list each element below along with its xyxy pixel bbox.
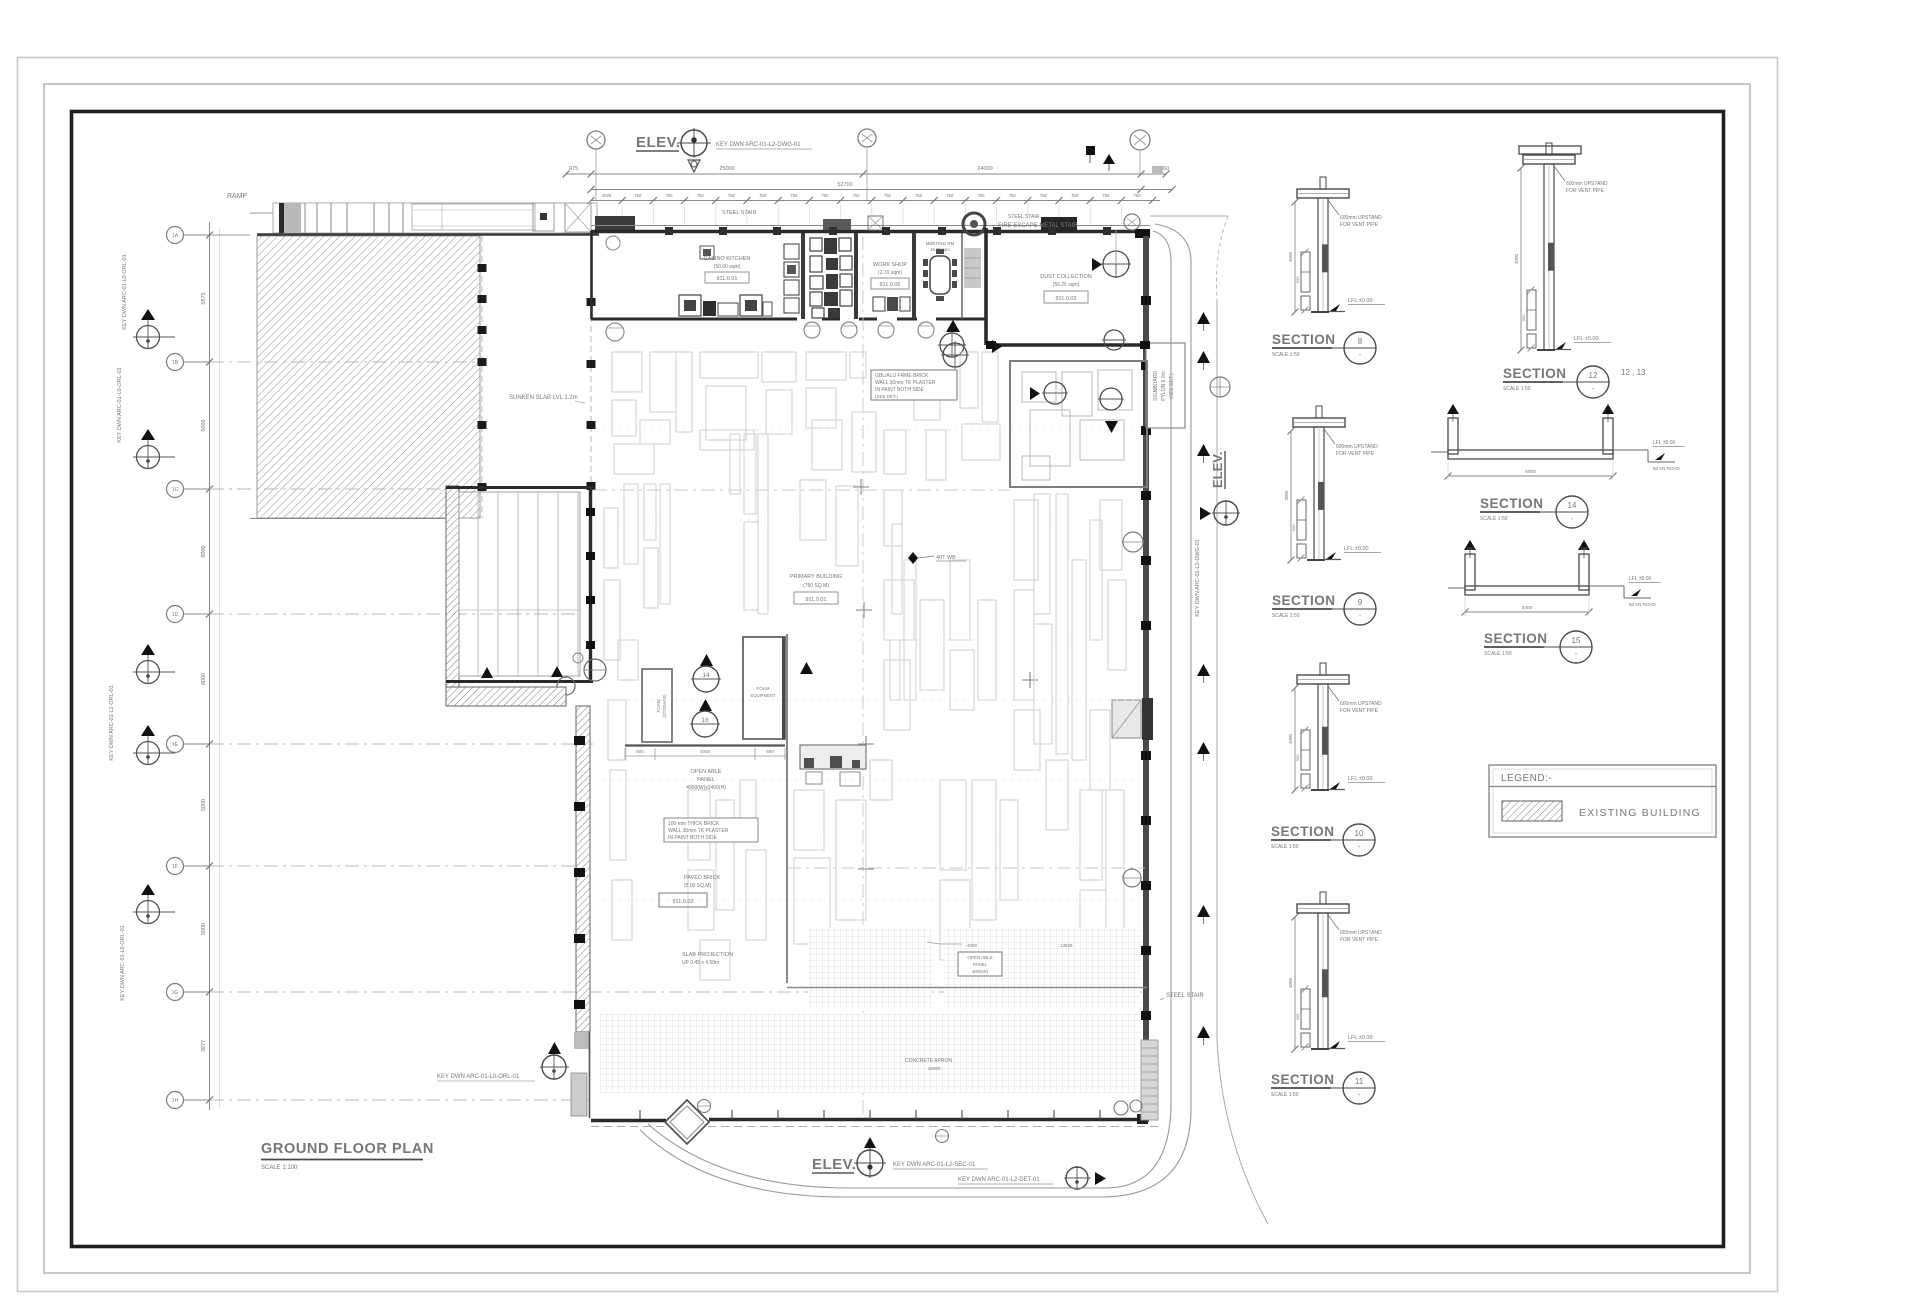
svg-text:SECTION: SECTION	[1503, 366, 1567, 381]
svg-text:1C: 1C	[172, 487, 179, 493]
svg-text:FOR VENT PIPE: FOR VENT PIPE	[1340, 222, 1379, 228]
grid bubble 1H	[167, 1092, 591, 1109]
brick wall spec box lower	[664, 818, 758, 842]
svg-text:(5.00 SQ.M): (5.00 SQ.M)	[684, 883, 712, 889]
svg-text:15: 15	[1572, 636, 1581, 645]
svg-text:750: 750	[946, 193, 954, 198]
small circle below corner	[606, 236, 620, 250]
grid bubble 1B	[167, 354, 481, 371]
section label 11	[1271, 1072, 1375, 1104]
SUNKEN SLAB label	[509, 395, 585, 403]
svg-text:LFL ±0.00: LFL ±0.00	[1348, 298, 1373, 304]
ELEV title bottom	[812, 1156, 856, 1173]
svg-text:SLAB PROJECTION: SLAB PROJECTION	[682, 952, 733, 958]
grid bubble 1F	[167, 858, 579, 875]
top wall dark blocks	[823, 216, 1150, 238]
svg-text:LFL ±0.00: LFL ±0.00	[1653, 440, 1676, 446]
svg-text:40T WB: 40T WB	[936, 555, 956, 561]
svg-text:SIGNBOARD: SIGNBOARD	[1153, 371, 1159, 401]
dust subroom walls	[1010, 361, 1147, 487]
svg-text:LFL ±0.00: LFL ±0.00	[1348, 1035, 1373, 1041]
svg-text:1A: 1A	[172, 233, 179, 239]
svg-text:GBL/ALU FRME BRICK: GBL/ALU FRME BRICK	[875, 373, 929, 379]
ELEV title top	[636, 134, 680, 151]
PRIMARY BUILDING label	[790, 574, 842, 604]
flag in dust room	[1092, 230, 1131, 278]
ELEV vertical right	[1200, 451, 1240, 526]
faint machinery right runs	[1034, 494, 1102, 760]
WORK SHOP labels	[871, 262, 909, 289]
FIRE ESCAPE METAL STAIR text	[998, 223, 1078, 229]
svg-text:3000: 3000	[1288, 733, 1293, 744]
svg-text:SCALE 1:50: SCALE 1:50	[1272, 352, 1300, 358]
ELEV reference text top	[716, 142, 812, 149]
svg-text:9: 9	[1358, 598, 1363, 607]
grid circle top right on wall	[1124, 214, 1140, 230]
kitchen right strip equipment	[784, 244, 799, 313]
40T WB marker	[908, 552, 966, 564]
faint machinery extra right mid	[1014, 500, 1126, 830]
STEEL STAIR bottom label	[1160, 993, 1204, 1000]
section detail 10	[1288, 663, 1385, 794]
svg-text:911.0.02: 911.0.02	[672, 899, 693, 905]
svg-text:911.0.03: 911.0.03	[1055, 296, 1076, 302]
rotated key text left 1	[117, 367, 123, 442]
inner room top wall	[446, 486, 593, 489]
svg-text:LEGEND:-: LEGEND:-	[1501, 773, 1552, 784]
inner room hatched left wall	[446, 486, 459, 687]
svg-text:FOAM: FOAM	[656, 699, 661, 712]
svg-text:750: 750	[1134, 193, 1142, 198]
svg-text:900: 900	[1521, 314, 1526, 321]
grid bubble 1C	[167, 481, 447, 498]
svg-text:FOAM: FOAM	[757, 686, 770, 691]
ELEV reference text bottom	[893, 1162, 988, 1169]
bottom flag circle left	[540, 1042, 569, 1080]
paved brick label	[659, 875, 720, 907]
svg-text:DUST COLLECTION: DUST COLLECTION	[1040, 274, 1092, 280]
grid bubble 1A	[167, 227, 251, 244]
grid crosses	[853, 479, 1038, 1000]
wall dark block top-left corner	[595, 216, 635, 233]
svg-text:1F: 1F	[172, 864, 178, 870]
svg-text:750: 750	[978, 193, 986, 198]
rotated key text right	[1195, 539, 1201, 617]
CASINO KITCHEN labels	[704, 256, 751, 283]
svg-text:1D: 1D	[172, 612, 179, 618]
dimension line total 52700	[588, 182, 1176, 193]
faint machinery lower-left	[794, 760, 892, 980]
section detail 15	[1448, 540, 1661, 616]
svg-text:4000(W)x2400(H): 4000(W)x2400(H)	[686, 785, 726, 791]
svg-text:SECTION: SECTION	[1271, 1072, 1335, 1087]
dimension line overall top	[563, 166, 1170, 178]
svg-text:FOR VENT PIPE: FOR VENT PIPE	[1340, 937, 1379, 943]
section cut flag left 2	[133, 429, 175, 469]
flags along road	[1197, 312, 1210, 1045]
column line with blocks x480	[478, 236, 487, 518]
svg-text:600mm UPSTAND: 600mm UPSTAND	[1336, 444, 1378, 450]
svg-text:ELEV.: ELEV.	[812, 1156, 856, 1173]
flag 1111 399	[1098, 388, 1124, 433]
rooms bottom wall	[591, 318, 985, 321]
svg-text:SECTION: SECTION	[1271, 824, 1335, 839]
column line with blocks x591 upper	[587, 236, 596, 490]
lone triangle near foam room	[800, 662, 813, 674]
svg-text:975: 975	[569, 166, 578, 172]
section label 10	[1271, 824, 1375, 856]
svg-text:11: 11	[1355, 1077, 1364, 1086]
svg-text:4000: 4000	[700, 749, 711, 754]
svg-text:SECTION: SECTION	[1480, 496, 1544, 511]
bottom key text left	[437, 1074, 535, 1081]
section label 8	[1272, 332, 1376, 364]
svg-text:750: 750	[853, 193, 861, 198]
svg-text:100 mm THICK BRICK: 100 mm THICK BRICK	[668, 821, 720, 827]
svg-text:13625: 13625	[1060, 943, 1073, 948]
svg-text:1B: 1B	[172, 360, 179, 366]
svg-text:750: 750	[1009, 193, 1017, 198]
GROUND FLOOR PLAN title	[261, 1141, 434, 1171]
svg-text:WORK SHOP: WORK SHOP	[873, 262, 908, 268]
svg-text:4000: 4000	[602, 193, 612, 198]
svg-text:GROUND FLOOR PLAN: GROUND FLOOR PLAN	[261, 1141, 434, 1157]
faint machinery center tall	[890, 524, 916, 700]
svg-text:3000: 3000	[1284, 490, 1289, 501]
small box right of top dim	[1152, 166, 1163, 174]
svg-text:PYLON 6.0m: PYLON 6.0m	[1161, 371, 1167, 400]
legend swatch existing building	[1502, 801, 1701, 821]
svg-text:750: 750	[1071, 193, 1079, 198]
faint machinery lower-right	[1080, 790, 1124, 960]
section label 14	[1480, 496, 1588, 528]
svg-text:ELEV.: ELEV.	[636, 134, 680, 151]
svg-text:8: 8	[1358, 337, 1363, 346]
svg-text:OPEN ABLE: OPEN ABLE	[967, 955, 992, 960]
svg-text:600mm UPSTAND: 600mm UPSTAND	[1340, 701, 1382, 707]
svg-text:900: 900	[1295, 1013, 1300, 1020]
hall horizontal dashed y490	[593, 489, 1010, 491]
section label 9	[1272, 593, 1376, 625]
svg-text:(750 SQ.M): (750 SQ.M)	[803, 583, 829, 589]
faint machinery mid run	[730, 434, 768, 614]
section label 15	[1484, 631, 1592, 663]
svg-text:SCALE 1:50: SCALE 1:50	[1480, 516, 1508, 522]
inner partition wall x787	[787, 634, 1147, 988]
faint machinery extra center mid	[884, 560, 996, 730]
grid bubble top E3	[1130, 130, 1150, 174]
dust subroom machinery	[1022, 370, 1132, 480]
paved grid floor upper patches	[808, 928, 1140, 1008]
svg-text:150: 150	[1581, 546, 1589, 551]
open able panel text	[686, 769, 726, 791]
grid bubble 1G	[167, 984, 1146, 1001]
svg-text:18: 18	[701, 717, 709, 724]
inner room stair lines	[459, 492, 580, 676]
lower left wall door blocks	[571, 1032, 590, 1118]
svg-text:750: 750	[822, 193, 830, 198]
svg-text:8000: 8000	[1525, 469, 1536, 475]
wall spec box	[871, 370, 957, 400]
svg-text:SCALE 1:50: SCALE 1:50	[1484, 651, 1512, 657]
hall horizontal dashed y868	[787, 867, 1145, 869]
svg-text:50 KN ROAD: 50 KN ROAD	[1629, 602, 1657, 607]
kitchen equipment row	[679, 246, 772, 316]
DUST COLLECTION labels	[1040, 274, 1092, 303]
svg-text:5000: 5000	[201, 799, 207, 811]
svg-text:PANEL: PANEL	[973, 962, 988, 967]
svg-text:LFL ±0.00: LFL ±0.00	[1629, 576, 1652, 582]
svg-text:911.0.01: 911.0.01	[716, 276, 737, 282]
svg-text:SCALE 1:50: SCALE 1:50	[1271, 1092, 1299, 1098]
svg-text:900: 900	[1295, 276, 1300, 283]
grid bubble top E1	[587, 131, 605, 201]
MEETING RM labels	[926, 241, 955, 252]
section label 12-13	[1503, 366, 1646, 398]
svg-text:SUNKEN SLAB LVL 1.2m: SUNKEN SLAB LVL 1.2m	[509, 395, 578, 401]
inner room bottom wall	[446, 680, 593, 683]
svg-text:3000: 3000	[1288, 251, 1293, 262]
svg-text:KEY DWN ARC-01-L2-DWG-01: KEY DWN ARC-01-L2-DWG-01	[1195, 539, 1201, 617]
section detail 12-13	[1514, 143, 1611, 354]
svg-text:STEEL STAIR: STEEL STAIR	[722, 210, 757, 216]
rotated key text left 4	[120, 925, 126, 1000]
svg-text:STEEL STAIR: STEEL STAIR	[1008, 214, 1040, 220]
svg-text:4000: 4000	[967, 943, 978, 948]
svg-text:UP 0.45 x 4.50m: UP 0.45 x 4.50m	[682, 960, 719, 966]
svg-text:5875: 5875	[201, 292, 207, 304]
stair corridor strip	[964, 248, 981, 288]
svg-text:SCALE 1:100: SCALE 1:100	[261, 1165, 298, 1171]
hall vertical gridline	[862, 236, 864, 1118]
svg-text:FOR VENT PIPE: FOR VENT PIPE	[1566, 188, 1605, 194]
svg-text:FOR VENT PIPE: FOR VENT PIPE	[1336, 451, 1375, 457]
top wall column ticks	[665, 227, 1111, 235]
grid bubble 1E	[167, 736, 594, 753]
flag 955 355	[941, 340, 1002, 369]
svg-text:5000: 5000	[201, 923, 207, 935]
svg-text:SCALE 1:50: SCALE 1:50	[1271, 844, 1299, 850]
svg-text:12 , 13: 12 , 13	[1621, 368, 1646, 377]
second flag bottom	[958, 1166, 1106, 1190]
site line far right	[1150, 216, 1268, 1224]
section cut flag left 4	[133, 725, 175, 765]
workshop equipment	[873, 297, 910, 311]
hatched existing building area	[250, 236, 480, 519]
svg-text:(STORAGE): (STORAGE)	[662, 694, 667, 718]
section 15 flange top labels	[1467, 546, 1589, 551]
svg-text:600mm UPSTAND: 600mm UPSTAND	[1340, 215, 1382, 221]
svg-text:IN PAINT BOTH SIDE: IN PAINT BOTH SIDE	[668, 835, 718, 841]
paved grid floor lower	[600, 1013, 1140, 1093]
dark machine lower-left	[800, 745, 866, 786]
svg-text:900: 900	[1291, 524, 1296, 531]
svg-text:750: 750	[728, 193, 736, 198]
svg-text:3000: 3000	[1288, 977, 1293, 988]
svg-text:500: 500	[636, 749, 644, 754]
flag 1114 340	[1102, 330, 1126, 350]
top right mini flags	[1086, 146, 1115, 171]
faint machinery band top A3	[806, 352, 1000, 460]
svg-text:3977: 3977	[201, 1040, 207, 1052]
existing building top edge wall	[257, 233, 599, 236]
svg-text:PANEL: PANEL	[697, 777, 715, 783]
ELEV marker circle top	[677, 128, 711, 172]
svg-text:30000: 30000	[928, 1066, 941, 1071]
svg-text:LFL ±0.00: LFL ±0.00	[1348, 776, 1373, 782]
svg-text:14: 14	[1568, 501, 1577, 510]
flag 14	[691, 654, 721, 692]
faint machinery band top A1	[612, 352, 692, 474]
ramp strip structure	[250, 203, 597, 233]
dense equipment room	[810, 238, 852, 318]
grid bubble right road	[1210, 377, 1230, 397]
STEEL STAIR text top	[722, 210, 757, 216]
svg-text:25000: 25000	[719, 166, 734, 172]
svg-text:750: 750	[666, 193, 674, 198]
faint machinery extra mid-left lower	[688, 780, 766, 980]
svg-text:EQUIPMENT: EQUIPMENT	[751, 693, 776, 698]
shelf line and dims	[625, 746, 785, 761]
svg-text:500: 500	[766, 749, 774, 754]
svg-text:EXISTING BUILDING: EXISTING BUILDING	[1579, 807, 1701, 819]
steel stair small label top	[1008, 214, 1040, 220]
svg-text:(56.25 sqm): (56.25 sqm)	[1053, 282, 1080, 288]
signboard box on right wall	[1146, 343, 1185, 428]
road boundary outer	[640, 224, 1191, 1197]
svg-text:750: 750	[915, 193, 923, 198]
flag near corridor	[938, 320, 966, 357]
grid bubble top E2	[858, 129, 876, 201]
faint machinery band top A2	[700, 352, 796, 450]
ELEV marker circle bottom	[854, 1137, 886, 1178]
svg-text:750: 750	[697, 193, 705, 198]
svg-text:(2.70 sqm): (2.70 sqm)	[878, 270, 902, 276]
accordion door right wall	[1112, 698, 1153, 740]
svg-text:KEY DWN ARC-01-L0-ORL-01: KEY DWN ARC-01-L0-ORL-01	[122, 254, 128, 329]
svg-text:FIRE ESCAPE METAL STAIR: FIRE ESCAPE METAL STAIR	[998, 223, 1078, 229]
svg-text:3000: 3000	[1514, 253, 1519, 264]
building right wall	[1141, 236, 1151, 1122]
svg-text:750: 750	[790, 193, 798, 198]
legend box	[1489, 765, 1716, 837]
svg-text:LFL ±0.00: LFL ±0.00	[1574, 336, 1599, 342]
svg-text:24000: 24000	[977, 166, 992, 172]
open able panel box bottom	[927, 942, 1073, 976]
svg-text:SCALE 1:50: SCALE 1:50	[1272, 613, 1300, 619]
section detail 11	[1288, 892, 1385, 1053]
svg-text:CONCRETE APRON: CONCRETE APRON	[905, 1058, 952, 1064]
svg-text:600mm UPSTAND: 600mm UPSTAND	[1340, 930, 1382, 936]
faint machinery mid-left	[624, 484, 670, 608]
svg-text:SCALE 1:50: SCALE 1:50	[1503, 386, 1531, 392]
svg-text:1H: 1H	[172, 1098, 179, 1104]
svg-text:911.0.05: 911.0.05	[879, 282, 900, 288]
flag 18	[690, 699, 720, 737]
hatch band below inner room	[446, 687, 566, 706]
svg-text:SECTION: SECTION	[1272, 332, 1336, 347]
svg-text:IN PAINT BOTH SIDE: IN PAINT BOTH SIDE	[875, 387, 925, 393]
svg-text:LFL ±0.00: LFL ±0.00	[1344, 546, 1369, 552]
wall bubble on top wall	[963, 213, 985, 235]
svg-text:750: 750	[1040, 193, 1048, 198]
road boundary inner	[648, 231, 1171, 1188]
svg-text:KEY DWN ARC-01-L2-ORL-01: KEY DWN ARC-01-L2-ORL-01	[109, 685, 115, 760]
svg-text:3400: 3400	[1522, 605, 1533, 611]
svg-text:OPEN ABLE: OPEN ABLE	[691, 769, 722, 775]
svg-text:12: 12	[1589, 371, 1598, 380]
section 12-13 extra cap	[1519, 146, 1581, 154]
inner room right wall	[586, 487, 595, 682]
faint machinery extra left column	[604, 508, 638, 940]
section detail 9	[1284, 406, 1381, 564]
flags on right wall	[1122, 532, 1144, 887]
foam equipment room	[743, 637, 785, 739]
section detail 8	[1288, 177, 1385, 316]
svg-text:KEY DWN ARC-01-L0-ORL-01: KEY DWN ARC-01-L0-ORL-01	[117, 367, 123, 442]
svg-text:600mm UPSTAND: 600mm UPSTAND	[1566, 181, 1608, 187]
svg-text:8000: 8000	[201, 673, 207, 685]
svg-text:MEETING RM: MEETING RM	[926, 241, 955, 246]
svg-text:KEY DWN ARC-01-L2-SEC-01: KEY DWN ARC-01-L2-SEC-01	[893, 1162, 976, 1168]
svg-text:(50.00 sqm): (50.00 sqm)	[714, 264, 741, 270]
svg-text:SECTION: SECTION	[1484, 631, 1548, 646]
section detail 14	[1431, 404, 1685, 480]
rotated key text left 3	[109, 685, 115, 760]
inner drawing border	[72, 112, 1724, 1247]
svg-text:900: 900	[1295, 754, 1300, 761]
inner room corner flags	[481, 653, 606, 695]
left vertical dimension line	[201, 222, 220, 1110]
small bubble above diamond	[698, 1100, 711, 1113]
svg-text:(SEE DET.): (SEE DET.)	[1169, 373, 1175, 399]
small circles bottom right corner	[1114, 1100, 1142, 1115]
svg-text:KEY DWN ARC-01-L2-DWG-01: KEY DWN ARC-01-L2-DWG-01	[716, 142, 801, 148]
section cut flag left 3	[133, 644, 175, 684]
svg-text:1G: 1G	[172, 990, 179, 996]
svg-text:SECTION: SECTION	[1272, 593, 1336, 608]
dimension line bays	[588, 193, 1161, 226]
svg-text:4000(W): 4000(W)	[972, 969, 989, 974]
svg-text:10: 10	[1355, 829, 1364, 838]
svg-text:STEEL STAIR: STEEL STAIR	[1166, 993, 1204, 999]
svg-text:5000: 5000	[201, 545, 207, 557]
svg-text:ELEV.: ELEV.	[1210, 452, 1225, 488]
svg-text:PRIMARY BUILDING: PRIMARY BUILDING	[790, 574, 842, 580]
svg-text:750: 750	[1102, 193, 1110, 198]
svg-text:750: 750	[884, 193, 892, 198]
flag 1055 393	[1030, 382, 1068, 404]
building bottom wall	[591, 1110, 1158, 1127]
section cut flag left 5	[133, 884, 175, 924]
svg-text:KEY DWN ARC-01-L0-ORL-01: KEY DWN ARC-01-L0-ORL-01	[437, 1074, 520, 1080]
rotated key text left 2	[122, 254, 128, 329]
foam narrow room	[642, 669, 672, 742]
svg-text:WALL 30mm TK PLASTER: WALL 30mm TK PLASTER	[875, 380, 936, 386]
svg-text:750: 750	[634, 193, 642, 198]
svg-text:5000: 5000	[201, 419, 207, 431]
faint machinery extra center band	[800, 380, 946, 566]
svg-text:FOR VENT PIPE: FOR VENT PIPE	[1340, 708, 1379, 714]
svg-text:KEY DWN ARC-01-L0-ORL-01: KEY DWN ARC-01-L0-ORL-01	[120, 925, 126, 1000]
door circles under rooms wall	[606, 322, 934, 341]
slab projection label	[682, 952, 733, 966]
meeting room table	[923, 249, 957, 301]
svg-text:KEY DWN ARC-01-L2-DET-01: KEY DWN ARC-01-L2-DET-01	[958, 1177, 1040, 1183]
svg-text:PAVED BRICK: PAVED BRICK	[684, 875, 720, 881]
dust collection room bottom wall	[986, 341, 1150, 349]
left wall hatched band lower	[574, 706, 590, 1032]
